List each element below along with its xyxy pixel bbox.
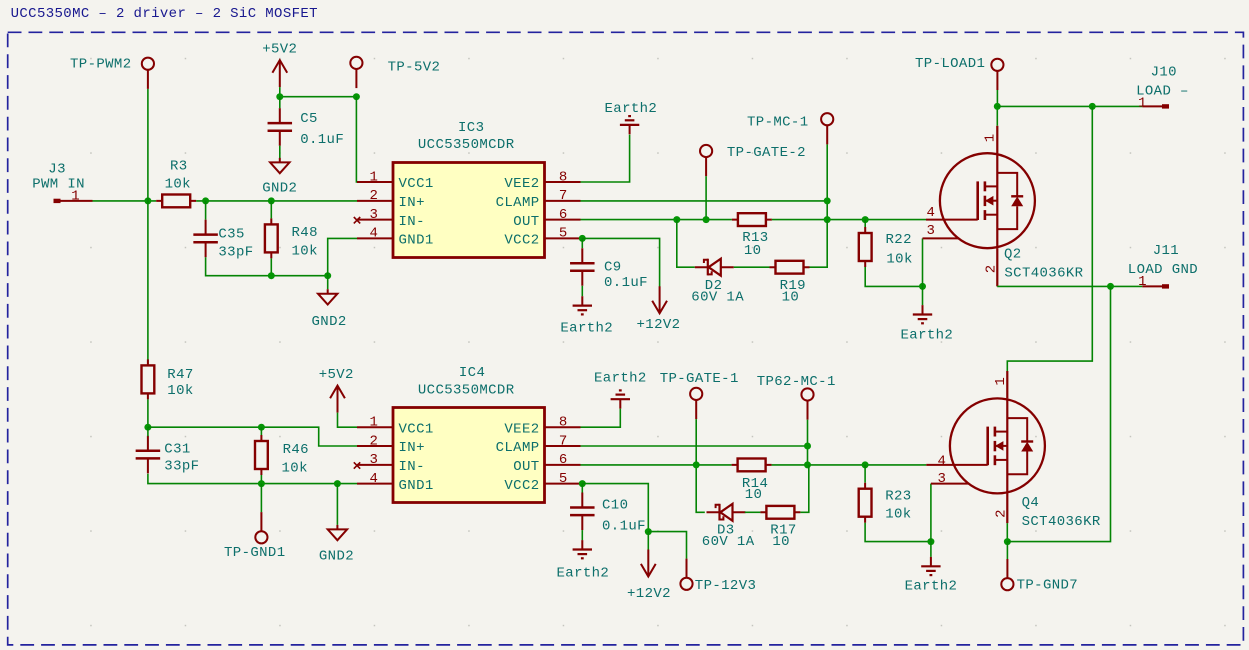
svg-text:GND2: GND2 [312,314,347,330]
svg-text:10k: 10k [282,461,308,477]
wire CLAMP to TP-MC-1 column [581,200,828,202]
wire junction to +12V2 [647,532,649,550]
node junction TP-GATE-2/OUT [703,216,710,223]
svg-text:R23: R23 [885,488,911,504]
wire Q4 source to junction [1006,523,1008,542]
wire TP62-MC-1 down through CLAMP to OUT [807,420,809,465]
pin 7 CLAMP [545,445,581,447]
svg-text:33pF: 33pF [164,459,199,475]
wire R17 up to OUT junction [800,465,808,512]
resistor R13 [732,213,772,226]
testpoint TP-GND7 [1001,559,1013,590]
svg-text:TP-GATE-2: TP-GATE-2 [727,145,806,161]
wire R46 bottom [260,475,262,484]
svg-text:10k: 10k [886,251,912,267]
ground GND2 (near R48) [318,289,337,304]
svg-text:IC4: IC4 [459,365,485,381]
wire TP-MC-1 down through CLAMP to OUT [826,144,828,219]
svg-text:+5V2: +5V2 [319,367,354,383]
svg-text:C31: C31 [164,442,190,458]
wire Q4 source to J11 column [1007,286,1110,541]
ground GND2 (under C5) [270,158,289,173]
wire D2 branch down-left [677,220,695,268]
wire TP-GND1 stub [260,484,262,512]
svg-text:10: 10 [745,487,763,503]
wire Q4 pin3 kelvin [930,484,932,542]
svg-text:6: 6 [559,452,568,468]
svg-text:VCC1: VCC1 [399,421,434,437]
svg-text:SCT4036KR: SCT4036KR [1022,514,1101,530]
wire GND2 stub [327,276,329,290]
svg-text:Q4: Q4 [1022,495,1040,511]
node junction R23 top [862,461,869,468]
svg-text:C5: C5 [300,111,318,127]
wire Q2 pin3 kelvin [922,238,924,286]
resistor R46 [255,435,268,475]
pin 1 VCC1 [357,426,393,428]
svg-text:VEE2: VEE2 [504,176,539,192]
svg-text:Earth2: Earth2 [594,370,647,386]
svg-text:CLAMP: CLAMP [496,195,540,211]
wire +5V2 rail [280,96,357,98]
svg-text:4: 4 [370,471,379,487]
capacitor C10 [570,493,595,531]
node junction Earth/pin3 (bottom) [927,538,934,545]
svg-text:8: 8 [559,415,568,431]
svg-text:6: 6 [559,207,568,223]
wire R19 up to OUT junction [810,220,828,268]
svg-text:8: 8 [559,169,568,185]
wire R47 bottom [147,399,149,427]
wire J3 to R3 [93,200,157,202]
wire TP-LOAD1 to drain node [996,90,998,106]
wire C9 bottom [581,286,583,296]
power +12V2 (top, down arrow) [652,286,667,313]
resistor R14 [732,459,772,472]
svg-text:1: 1 [370,169,379,185]
svg-text:C10: C10 [602,498,628,514]
resistor R23 [859,483,872,523]
resistor R22 [859,227,872,267]
svg-text:SCT4036KR: SCT4036KR [1004,266,1083,282]
svg-text:1: 1 [993,377,1009,386]
testpoint TP-MC-1 [821,113,833,144]
node junction R46 top [258,424,265,431]
svg-text:R22: R22 [886,232,912,248]
wire C10 bottom [581,530,583,540]
svg-text:UCC5350MC – 2 driver – 2 SiC M: UCC5350MC – 2 driver – 2 SiC MOSFET [11,6,318,22]
pin 3 IN- [357,464,393,466]
wire C5 top [279,97,281,108]
svg-text:Earth2: Earth2 [905,579,958,595]
pin 8 VEE2 [545,426,581,428]
svg-text:R47: R47 [167,367,193,383]
resistor R19 [770,261,810,274]
pin 6 OUT [545,464,581,466]
svg-text:R48: R48 [292,225,318,241]
node junction J11 / low-side column [1107,283,1114,290]
node junction CLAMP/TP-MC-1 [824,197,831,204]
svg-text:TP-GND7: TP-GND7 [1017,577,1078,593]
power +5V2 (top) [272,60,287,87]
wire R22 top [864,220,866,227]
diode D3 (schottky 60V 1A) [707,504,746,521]
pin 7 CLAMP [545,200,581,202]
svg-text:GND2: GND2 [262,180,297,196]
wire C5 bottom [279,146,281,158]
svg-text:IN+: IN+ [399,440,425,456]
svg-text:GND2: GND2 [319,549,354,565]
wire R48 top [270,201,272,219]
svg-text:Q2: Q2 [1004,247,1022,263]
svg-text:3: 3 [370,207,379,223]
wire R48 bottom [270,258,272,275]
power +5V2 (bottom) [330,386,345,413]
wire TP-GND7 stub [1006,542,1008,559]
wire D3 to R17 [745,511,761,513]
wire R22 bottom to source rail [865,267,922,286]
connector J3 pin 1 [32,161,92,204]
pin 3 IN- [357,219,393,221]
wire VEE2 to Earth2 (bottom) [581,409,621,428]
wire GND1 pin4 to GND wire [328,238,357,275]
capacitor C35 [193,220,218,258]
svg-text:Earth2: Earth2 [560,320,613,336]
svg-text:+12V2: +12V2 [627,586,671,602]
svg-text:10: 10 [772,534,790,550]
svg-text:IN+: IN+ [399,195,425,211]
svg-text:5: 5 [559,471,568,487]
power +12V2 (bottom, down arrow) [641,550,656,577]
svg-text:IN-: IN- [399,459,425,475]
pin 5 VCC2 [545,237,581,239]
wire CLAMP to TP62-MC-1 [581,445,808,447]
node junction C5 top [276,93,283,100]
node junction GND2 stub (bottom) [334,480,341,487]
svg-text:3: 3 [370,452,379,468]
svg-text:IN-: IN- [399,214,425,230]
svg-text:J10: J10 [1151,65,1177,81]
svg-text:60V 1A: 60V 1A [691,290,744,306]
transistor Q4 SCT4036KR [926,371,1101,530]
svg-text:0.1uF: 0.1uF [602,518,646,534]
svg-text:3: 3 [938,471,947,487]
pin 8 VEE2 [545,181,581,183]
connector J10 pin 1 [1136,65,1189,112]
wire GND2 stub (bottom) [336,484,338,525]
pin 5 VCC2 [545,483,581,485]
svg-text:2: 2 [370,433,379,449]
ground Earth2 (under R23) [921,557,940,575]
ground Earth2 (IC4 VEE2) [611,390,630,408]
svg-text:J11: J11 [1153,243,1179,259]
svg-text:OUT: OUT [513,459,539,475]
pin 2 IN+ [357,200,393,202]
svg-text:10k: 10k [167,383,193,399]
svg-text:R3: R3 [170,158,188,174]
no-connect x on pin 3 [354,462,360,468]
svg-text:+5V2: +5V2 [262,42,297,58]
node junction OUT/TP-MC-1 [824,216,831,223]
transistor Q2 SCT4036KR [923,126,1084,287]
node junction GND stub [324,272,331,279]
wire TP-GATE-1 down to OUT and D3 [696,419,705,512]
svg-text:TP-GND1: TP-GND1 [224,545,285,561]
svg-text:1: 1 [1138,96,1147,112]
wire C31 top [147,427,149,436]
svg-text:4: 4 [938,453,947,469]
svg-text:10k: 10k [885,506,911,522]
ground Earth2 (under Q2) [913,305,932,323]
wire rail down to IC3 pin1 [355,97,358,182]
svg-text:3: 3 [927,223,936,239]
wire R23 bottom to source rail [865,523,931,542]
node junction R46 bottom [258,480,265,487]
connector J11 pin 1 [1128,243,1198,290]
svg-text:TP-LOAD1: TP-LOAD1 [915,56,985,72]
svg-text:2: 2 [993,509,1009,518]
wire D2 to R19 [734,266,770,268]
svg-text:10k: 10k [292,244,318,260]
node junction +12V2 / TP-12V3 [645,528,652,535]
svg-text:10: 10 [744,243,762,259]
wire R23 top [864,465,866,483]
wire +5V2 to pin1 [338,413,358,428]
svg-text:10k: 10k [165,177,191,193]
wire C35 bottom to GND wire [206,257,328,276]
resistor R17 [760,506,800,519]
node junction CLAMP/TP62-MC-1 [804,443,811,450]
wire Q4 drain up to J10 column [1007,106,1092,371]
svg-text:VCC2: VCC2 [504,233,539,249]
testpoint TP62-MC-1 [801,388,813,419]
svg-text:Earth2: Earth2 [901,327,954,343]
resistor R47 [142,359,155,399]
wire Earth2 stub under Q2 [922,286,924,305]
op-amp U2 (IC4 UCC5350MCDR gate driver) [393,365,545,502]
svg-text:GND1: GND1 [399,478,434,494]
testpoint TP-LOAD1 [991,59,1003,90]
wire VCC2 node (bottom) [579,480,586,487]
wire OUT to R14 [581,464,732,466]
wire OUT to R13 [581,219,732,221]
svg-text:VCC1: VCC1 [399,176,434,192]
testpoint TP-GND1 [255,512,267,543]
wire TP-PWM2 down to main wire and R47 [147,89,149,365]
wire Q2 source rail to J11 [997,285,1142,287]
svg-text:C35: C35 [218,226,244,242]
wire junction to TP-12V3 [648,532,686,559]
svg-text:33pF: 33pF [218,245,253,261]
svg-text:10: 10 [782,290,800,306]
wire drain node down to Q2 [996,106,998,125]
svg-text:+12V2: +12V2 [637,317,681,333]
diode D2 (schottky 60V 1A) [695,259,734,276]
testpoint TP-12V3 [680,559,692,590]
wire VCC2 to C9 [581,238,583,248]
svg-text:R46: R46 [283,442,309,458]
svg-text:Earth2: Earth2 [557,566,610,582]
node junction J10 / Q4 drain column [1089,103,1096,110]
svg-text:TP-12V3: TP-12V3 [695,578,756,594]
svg-text:0.1uF: 0.1uF [300,132,344,148]
node junction R48 top [268,197,275,204]
wire R13 to gate [772,219,926,221]
wire TP-GATE-2 down to OUT [705,176,707,219]
wire Earth2 stub (bottom) [930,542,932,557]
svg-text:TP-GATE-1: TP-GATE-1 [660,371,739,387]
node junction R47/C31 [144,424,151,431]
wire VCC2 to +12V2 [582,238,659,286]
node junction D2 branch left [673,216,680,223]
wire C31 bottom to GND1 rail [148,474,357,484]
svg-text:4: 4 [370,226,379,242]
wire divider rail to IN+ [148,427,357,446]
capacitor C31 [136,436,161,474]
op-amp U1 (IC3 UCC5350MCDR gate driver) [393,120,545,257]
svg-text:7: 7 [559,188,568,204]
pin 6 OUT [545,219,581,221]
pin 4 GND1 [357,237,393,239]
pin 1 VCC1 [357,181,393,183]
capacitor C9 [570,248,595,286]
wire VCC2 to +12V2 branch [582,484,648,532]
wire VEE2 to Earth2 [581,135,630,182]
wire R14 to gate [772,464,927,466]
pin 2 IN+ [357,445,393,447]
ground GND2 (bottom) [328,525,347,540]
svg-text:7: 7 [559,433,568,449]
svg-text:5: 5 [559,226,568,242]
resistor R48 [265,218,278,258]
ground Earth2 (under C10) [573,540,592,558]
node junction Earth/pin3 [919,283,926,290]
svg-text:2: 2 [370,188,379,204]
testpoint TP-5V2 [350,57,362,88]
node junction TP-GATE-1/OUT/D3 [693,461,700,468]
svg-text:1: 1 [1138,274,1147,290]
svg-text:1: 1 [983,134,999,143]
svg-text:Earth2: Earth2 [605,101,658,117]
capacitor C5 [268,108,293,146]
svg-text:TP-PWM2: TP-PWM2 [70,56,131,72]
testpoint TP-GATE-2 [700,145,712,176]
svg-text:TP62-MC-1: TP62-MC-1 [757,374,836,390]
svg-text:1: 1 [71,189,80,205]
svg-text:VCC2: VCC2 [504,478,539,494]
wire C35 top [205,201,207,220]
svg-text:TP-5V2: TP-5V2 [388,60,441,76]
pin 4 GND1 [357,483,393,485]
node junction R22 top [862,216,869,223]
svg-text:VEE2: VEE2 [504,421,539,437]
node junction R3 / C35 [202,197,209,204]
testpoint TP-PWM2 [142,58,154,89]
svg-text:UCC5350MCDR: UCC5350MCDR [418,383,515,399]
node junction R48 bottom [268,272,275,279]
wire VCC2 node [579,235,586,242]
svg-text:60V 1A: 60V 1A [702,534,755,550]
wire R46 top [260,427,262,435]
wire R3 to IC3 pin2 [196,200,357,202]
ground Earth2 (under C9) [573,296,592,314]
node junction TP-PWM2 / main wire [144,197,151,204]
no-connect x on pin 3 [354,217,360,223]
testpoint TP-GATE-1 [690,388,702,419]
svg-text:J3: J3 [48,161,66,177]
node junction TP-5V2 [353,93,360,100]
svg-text:C9: C9 [604,260,622,276]
svg-text:TP-MC-1: TP-MC-1 [747,114,808,130]
svg-text:IC3: IC3 [458,120,484,136]
node junction Q2 drain [994,103,1001,110]
wire +5V2 to rail [279,87,281,97]
ground Earth2 (top, IC3 VEE2) [620,116,639,134]
wire drain to J10 [997,105,1142,107]
resistor R1 (R3) [156,195,196,208]
wire VCC2 to C10 [581,484,583,493]
svg-text:4: 4 [927,205,936,221]
svg-text:1: 1 [370,415,379,431]
svg-text:OUT: OUT [513,214,539,230]
node junction OUT/TP62-MC-1 [804,461,811,468]
svg-text:CLAMP: CLAMP [496,440,540,456]
svg-text:UCC5350MCDR: UCC5350MCDR [418,137,515,153]
svg-text:GND1: GND1 [399,233,434,249]
svg-text:2: 2 [983,264,999,273]
svg-text:0.1uF: 0.1uF [604,275,648,291]
node junction Q4 source [1004,538,1011,545]
